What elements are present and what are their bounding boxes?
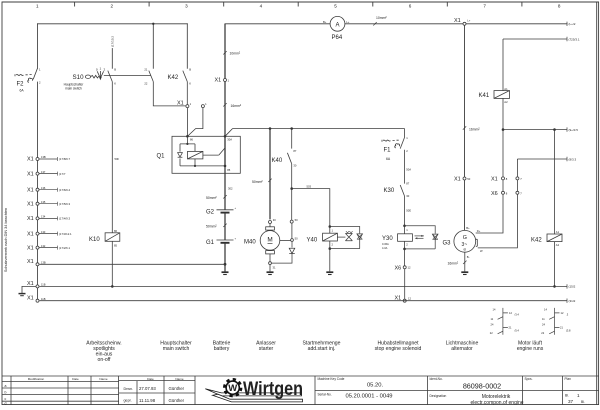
svg-text:X1: X1 <box>27 171 34 177</box>
svg-text:/5.4: /5.4 <box>515 328 520 332</box>
svg-text:503: 503 <box>307 184 312 188</box>
wire K42 to rail 286 <box>554 242 556 287</box>
relay coil K42 <box>554 130 556 234</box>
svg-text:Günther: Günther <box>169 386 185 391</box>
svg-text:Date: Date <box>147 377 154 381</box>
svg-text:stop engine solenoid: stop engine solenoid <box>375 346 422 352</box>
column numbers <box>36 3 561 8</box>
svg-text:133: 133 <box>41 230 46 234</box>
svg-text:302: 302 <box>228 187 233 191</box>
wire D+ riser top <box>502 130 504 177</box>
terminal M40 pin31 <box>269 262 272 265</box>
terminal X1 on main line <box>224 79 227 82</box>
svg-text:Name: Name <box>99 377 108 381</box>
svg-text:Date: Date <box>72 377 79 381</box>
svg-text:L+: L+ <box>467 19 470 23</box>
svg-text:30: 30 <box>406 194 409 198</box>
wire Y40 to ground <box>329 249 331 272</box>
reference (9/3.3 <box>567 157 577 162</box>
svg-text:P64: P64 <box>332 35 343 41</box>
svg-text:Q1: Q1 <box>157 154 166 160</box>
svg-text:Modification: Modification <box>28 377 45 381</box>
wire W riser top <box>516 159 518 177</box>
ground chassis Y40 <box>326 272 333 274</box>
svg-text:50: 50 <box>467 177 470 181</box>
svg-text:X1: X1 <box>27 157 34 163</box>
svg-text:Machine Key Code: Machine Key Code <box>318 377 345 381</box>
svg-text:main switch: main switch <box>65 87 82 91</box>
arrow marks Y30 <box>415 235 424 239</box>
svg-text:A1: A1 <box>556 230 560 234</box>
svg-text:0: 0 <box>96 67 98 71</box>
terminal X1 mid right <box>463 177 466 180</box>
svg-text:X1: X1 <box>177 101 184 107</box>
svg-text:X1: X1 <box>215 78 222 84</box>
node Y40 bottom junction <box>329 247 332 250</box>
svg-text:(17/7: (17/7 <box>59 172 66 176</box>
wire X1 pin1a to Q1 pin86 <box>186 108 188 136</box>
svg-text:Spcs.: Spcs. <box>525 377 533 381</box>
alternator G3 <box>454 230 476 252</box>
wire G3 B- to ground <box>464 252 466 271</box>
wire K41 riser <box>502 39 504 91</box>
svg-text:G3: G3 <box>443 240 452 246</box>
wire starter feed 50mm2 <box>269 129 271 220</box>
node Q1 pin 85 <box>224 165 227 168</box>
fuse F2 <box>15 68 38 82</box>
title block <box>2 376 599 405</box>
svg-text:X1: X1 <box>27 295 34 301</box>
node K42 rail junction <box>553 128 556 131</box>
svg-text:87: 87 <box>406 181 409 185</box>
terminal X1 pin1 b <box>201 105 204 108</box>
svg-text:/3.4: /3.4 <box>515 313 520 317</box>
svg-text:(9/3.3: (9/3.3 <box>569 157 577 161</box>
svg-text:11B: 11B <box>41 297 46 301</box>
svg-text:K: K <box>189 82 191 86</box>
terminal X1 left row 7 <box>27 244 70 252</box>
svg-text:B: B <box>189 67 191 71</box>
svg-text:6A: 6A <box>386 157 391 161</box>
svg-text:13B: 13B <box>41 261 46 265</box>
main battery line x225 top <box>224 24 226 210</box>
terminal X1 starter 30 <box>269 221 272 224</box>
svg-text:W: W <box>228 383 237 394</box>
relay contact K42 <box>183 71 188 105</box>
svg-text:a: a <box>5 384 7 388</box>
wire G3 D+ line <box>476 194 503 233</box>
wire size label 16mm2 <box>223 103 242 108</box>
svg-text:electr.compon.of engine: electr.compon.of engine <box>470 400 523 406</box>
wire K10 to ground rail <box>111 241 113 286</box>
svg-text:(17/3/12.1: (17/3/12.1 <box>59 232 72 236</box>
svg-text:Schutzvermerk nach DIN 34 beac: Schutzvermerk nach DIN 34 beachten <box>4 208 8 272</box>
svg-text:22: 22 <box>144 82 147 86</box>
svg-text:Motorelektrik: Motorelektrik <box>482 394 511 400</box>
wire G3 W line <box>478 194 518 248</box>
svg-text:(9+/3.5: (9+/3.5 <box>569 128 579 132</box>
svg-text:50: 50 <box>295 218 298 222</box>
svg-text:alternator: alternator <box>451 346 473 352</box>
svg-text:X1: X1 <box>27 216 34 222</box>
wire left column <box>37 82 39 301</box>
ground chassis M40 <box>267 272 274 274</box>
svg-text:K10: K10 <box>89 237 100 243</box>
terminal X1 top right on rail <box>463 22 466 25</box>
terminal X1 pin 50 <box>290 220 293 223</box>
svg-text:A1: A1 <box>504 87 508 91</box>
reference (L+/2 <box>567 22 576 27</box>
node K40 output junction <box>290 187 293 190</box>
terminal X1 pin1 a <box>186 105 189 108</box>
svg-text:6A: 6A <box>20 89 25 93</box>
svg-text:50E: 50E <box>406 209 411 213</box>
svg-text:K30: K30 <box>384 188 395 194</box>
svg-text:K41: K41 <box>479 93 490 99</box>
wire rail y286.4 <box>40 285 568 287</box>
svg-text:Bl.: Bl. <box>565 394 569 398</box>
Q1 contact <box>203 148 225 155</box>
function labels row <box>86 340 543 363</box>
svg-text:50A: 50A <box>406 168 411 172</box>
svg-text:(17/8/9.7: (17/8/9.7 <box>59 157 70 161</box>
node Q1 coil top junction <box>186 143 188 145</box>
wire size label 16mm2 G3 <box>448 261 467 266</box>
svg-text:B+: B+ <box>466 226 470 230</box>
relay Q1 box <box>172 136 240 173</box>
S10 contact pole 1 <box>108 71 113 233</box>
svg-text:Günther: Günther <box>169 398 185 403</box>
svg-text:4: 4 <box>260 3 263 8</box>
svg-text:X6: X6 <box>395 265 402 271</box>
wire K42 contact riser <box>186 24 188 69</box>
ammeter P64 <box>330 16 345 31</box>
coil Y30 <box>398 226 413 249</box>
svg-text:2: 2 <box>111 3 114 8</box>
wire rail y129.6 <box>503 129 567 131</box>
wire Y30 to X6 <box>404 249 406 266</box>
svg-text:134: 134 <box>41 215 46 219</box>
wire size label 50mm2 above G2 <box>206 195 227 200</box>
svg-text:1: 1 <box>577 393 580 398</box>
svg-text:S10: S10 <box>73 74 85 81</box>
svg-text:30: 30 <box>293 164 296 168</box>
svg-text:(17/6/9.4: (17/6/9.4 <box>59 188 70 192</box>
diode M40 suppression <box>272 242 295 264</box>
svg-text:5: 5 <box>334 3 337 8</box>
reference (9+/3.5 <box>567 127 578 131</box>
svg-text:F2: F2 <box>17 82 25 88</box>
wire M40 to ground <box>269 265 271 272</box>
svg-text:(15/2: (15/2 <box>569 285 576 289</box>
svg-text:G2: G2 <box>206 210 215 216</box>
svg-text:A2: A2 <box>504 100 508 104</box>
svg-text:Y30: Y30 <box>382 236 393 242</box>
svg-text:86: 86 <box>190 138 193 142</box>
wire X1 L+ down to G3 B+ <box>464 25 466 177</box>
ground chassis battery <box>222 272 229 274</box>
relay coil Q1 <box>188 151 203 159</box>
battery G2 <box>206 207 237 215</box>
wire size label 10mm2 <box>223 51 241 55</box>
svg-text:27.07.93: 27.07.93 <box>139 386 156 391</box>
svg-text:37: 37 <box>568 399 574 404</box>
svg-text:(17/4/9.3: (17/4/9.3 <box>59 217 70 221</box>
node K10 on rail <box>111 285 114 288</box>
terminal X1 left row 5 <box>27 215 70 223</box>
wire ground rail y264 <box>40 263 226 265</box>
svg-text:engine runs: engine runs <box>517 346 544 352</box>
motor M40 starter <box>260 224 280 262</box>
svg-text:85: 85 <box>227 168 230 172</box>
svg-text:X1: X1 <box>27 259 34 265</box>
svg-text:X1: X1 <box>27 281 34 287</box>
svg-text:132: 132 <box>41 244 46 248</box>
svg-text:2: 2 <box>104 67 106 71</box>
wire G1 to ground node <box>224 243 226 272</box>
svg-text:Name: Name <box>175 377 184 381</box>
svg-text:0.36A: 0.36A <box>382 242 389 246</box>
terminal X1 left row 2 <box>27 170 66 178</box>
node K40 feed junction <box>290 127 293 130</box>
reference (725/3.1 <box>567 37 580 42</box>
wire size label 16mm2 right <box>463 126 481 131</box>
wire X1 pin1b jog to Q1 pin86 <box>188 108 203 136</box>
svg-text:X1: X1 <box>454 177 461 183</box>
svg-text:on-off: on-off <box>98 357 112 363</box>
svg-text:50: 50 <box>295 237 298 241</box>
node battery ground junction <box>224 263 227 266</box>
svg-text:A: A <box>335 22 339 28</box>
wire rail y159 <box>517 158 567 160</box>
node K41 rail junction <box>502 128 505 131</box>
Q1 internal wiring <box>180 136 225 166</box>
wire size label 50mm2 starter <box>252 179 272 184</box>
terminal X1 rail 286 <box>27 281 46 288</box>
svg-text:(17/2/6.1: (17/2/6.1 <box>59 246 70 250</box>
svg-text:M: M <box>267 237 272 244</box>
terminal X1 ground rail 264 <box>27 259 46 266</box>
node K42 rail286 junction <box>553 285 556 288</box>
relay coil K10 <box>105 233 120 242</box>
svg-text:21: 21 <box>144 67 147 71</box>
svg-text:D+: D+ <box>477 229 481 233</box>
svg-text:K: K <box>114 82 116 86</box>
svg-text:F1: F1 <box>384 147 392 153</box>
main line through Q1 <box>224 136 226 166</box>
ground chassis G3 <box>461 272 468 274</box>
svg-text:A2: A2 <box>556 243 560 247</box>
terminal M40 pin50 <box>291 239 294 242</box>
svg-text:X1: X1 <box>27 201 34 207</box>
svg-text:Plan: Plan <box>565 377 572 381</box>
wire between batteries <box>224 213 226 240</box>
svg-text:8: 8 <box>558 3 561 8</box>
wire F2 riser <box>37 24 39 68</box>
wire 503 branch to Y40 <box>292 189 330 227</box>
svg-text:12: 12 <box>408 297 411 301</box>
svg-text:12: 12 <box>408 265 411 269</box>
node Q1 coil bottom junction <box>194 165 196 167</box>
svg-text:b: b <box>5 391 7 395</box>
wire X1 pair to X6 pair <box>503 180 517 191</box>
node Y40 top junction <box>329 225 332 228</box>
node Y30 top junction <box>403 225 406 228</box>
wire X1 to G3 B+ <box>464 180 466 230</box>
svg-text:Drwn.: Drwn. <box>124 387 134 391</box>
svg-text:L+: L+ <box>346 20 349 24</box>
terminal W bracket on G3 <box>476 239 478 246</box>
svg-text:11B: 11B <box>41 283 46 287</box>
svg-text:4.3A: 4.3A <box>382 246 388 250</box>
wire K41 to rail <box>502 98 504 129</box>
terminal X1 left row 4 <box>27 200 70 208</box>
wire distribution rail y128.5 <box>233 128 405 130</box>
relay coil K41 <box>494 91 510 99</box>
svg-text:05.20.0001 - 0049: 05.20.0001 - 0049 <box>345 394 392 400</box>
svg-text:135: 135 <box>41 200 46 204</box>
svg-text:31: 31 <box>273 266 276 270</box>
svg-text:X1: X1 <box>491 177 498 183</box>
svg-text:(17/5/9.3: (17/5/9.3 <box>59 202 70 206</box>
Wirtgen logo <box>205 379 303 402</box>
contact table Motor laeuft K42 <box>549 308 559 335</box>
node Y30 bottom junction <box>403 248 406 251</box>
svg-text:30: 30 <box>273 218 276 222</box>
svg-text:1: 1 <box>100 67 102 71</box>
svg-text:add.start inj.: add.start inj. <box>308 346 336 352</box>
svg-text:13B: 13B <box>41 155 46 159</box>
svg-text:(31/2: (31/2 <box>569 299 576 303</box>
svg-text:Wirtgen: Wirtgen <box>243 379 303 400</box>
terminal X6 <box>403 266 406 269</box>
svg-text:86098-0002: 86098-0002 <box>463 382 501 391</box>
terminal X1 rail 300 <box>27 295 46 302</box>
svg-text:d: d <box>5 401 7 405</box>
svg-text:11.11.98: 11.11.98 <box>139 398 156 403</box>
reference (15/2 <box>567 284 576 289</box>
svg-text:X6: X6 <box>491 191 498 197</box>
svg-text:B: B <box>114 67 116 71</box>
svg-text:X1: X1 <box>27 187 34 193</box>
node Q1 pin 30A <box>224 135 227 138</box>
svg-text:K42: K42 <box>168 75 179 81</box>
S10 contact pole 2 <box>149 71 186 106</box>
svg-text:main switch: main switch <box>163 346 190 352</box>
wire rail y300.7 <box>40 300 568 302</box>
wire M40 pin50 node <box>280 239 291 241</box>
battery G1 <box>206 237 237 245</box>
terminal X1 pair right <box>502 177 505 180</box>
svg-text:7: 7 <box>483 3 486 8</box>
terminal X1 on ground rail <box>403 299 406 302</box>
svg-text:(L+/2: (L+/2 <box>569 22 576 26</box>
svg-text:K40: K40 <box>272 158 283 164</box>
wire K40 to X1 terminal 50 <box>291 189 293 221</box>
svg-text:battery: battery <box>214 346 230 352</box>
svg-text:137: 137 <box>41 170 46 174</box>
wire X1 50 to M40 <box>291 223 293 238</box>
svg-text:Designation: Designation <box>430 394 447 398</box>
contact table Motor laeuft K41 <box>498 308 508 335</box>
wire X6 to rail crossing <box>404 269 406 299</box>
svg-text:G1: G1 <box>206 240 215 246</box>
reference (31/2 <box>567 299 576 304</box>
svg-text:Serial-No.: Serial-No. <box>318 393 332 397</box>
wire top rail right segment <box>225 23 567 25</box>
wire S10 feed from reference <box>111 49 113 69</box>
svg-text:Bl.: Bl. <box>581 400 585 404</box>
node starter feed junction <box>269 127 272 130</box>
terminal X1 left row 1 <box>27 155 70 163</box>
title block right cells <box>318 377 572 398</box>
svg-text:3: 3 <box>185 3 188 8</box>
diode Y40 suppression <box>330 227 363 249</box>
terminal X1 left row 3 <box>27 186 70 194</box>
svg-text:K42: K42 <box>531 237 542 243</box>
svg-text:87: 87 <box>293 149 296 153</box>
diode Y30 suppression <box>405 226 439 249</box>
svg-text:6: 6 <box>409 3 412 8</box>
svg-text:X1: X1 <box>454 18 461 24</box>
svg-text:Y40: Y40 <box>307 238 318 244</box>
svg-text:M40: M40 <box>244 239 256 245</box>
svg-text:136: 136 <box>41 186 46 190</box>
diode inside Q1 <box>178 153 183 158</box>
svg-text:starter: starter <box>259 346 274 352</box>
node S10 pole2 feed junction <box>152 23 154 25</box>
svg-text:X1: X1 <box>27 231 34 237</box>
wire S10 pole2 riser <box>152 24 154 69</box>
svg-text:B-: B- <box>467 255 470 259</box>
svg-text:(3.8: (3.8 <box>566 328 571 332</box>
valve symbol Y40 <box>337 231 352 241</box>
switch S10 main switch <box>85 71 150 80</box>
svg-text:Ident-No.: Ident-No. <box>430 377 443 381</box>
svg-text:30A: 30A <box>227 138 232 142</box>
terminal X6 pair right <box>502 191 505 194</box>
svg-text:(17/10.2: (17/10.2 <box>111 36 115 47</box>
wire K41 feed rail y39 <box>503 38 567 40</box>
terminal X1 left row 6 <box>27 230 72 238</box>
svg-text:(725/3.1: (725/3.1 <box>569 37 580 41</box>
svg-text:86: 86 <box>114 229 117 233</box>
relay contact K40 <box>287 129 291 189</box>
ground chassis left <box>19 286 39 295</box>
wire size label 10mm2 top <box>373 16 387 26</box>
svg-text:X1: X1 <box>27 245 34 251</box>
svg-text:⊘: ⊘ <box>463 247 466 251</box>
wire size label 50mm2 between <box>206 224 227 229</box>
svg-text:05.20.: 05.20. <box>367 383 384 389</box>
svg-text:50F: 50F <box>115 157 120 161</box>
svg-text:85: 85 <box>114 243 117 247</box>
wire diagonal to distribution rail <box>225 129 233 137</box>
relay contact K30 <box>400 185 404 226</box>
fuse F1 <box>382 129 405 184</box>
coil Y40 <box>323 227 338 249</box>
wire top rail left segment <box>38 23 188 25</box>
svg-text:gepr.: gepr. <box>124 398 132 402</box>
svg-text:1: 1 <box>36 3 39 8</box>
node Q1 pin 86 <box>186 135 189 138</box>
svg-text:G: G <box>463 235 467 241</box>
svg-text:B+: B+ <box>323 20 327 24</box>
